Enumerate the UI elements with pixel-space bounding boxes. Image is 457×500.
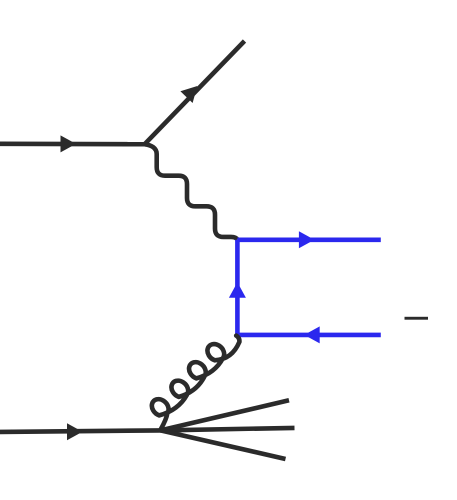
hadron remnant line A (upper) [161,400,290,430]
hadron remnant line B (middle) [161,428,295,431]
arrow on blue top quark line [299,231,315,248]
minus sign label (superscript) [405,317,429,320]
blue antiquark line (bottom, arrow pointing left) [237,333,380,338]
incoming fermion line (top left) [0,142,145,147]
blue quark propagator (vertical) [235,240,240,335]
incoming hadron line (bottom left) [0,430,161,432]
hadron remnant line C (lower) [161,430,286,459]
arrow on blue vertical quark line [229,282,246,298]
arrow on incoming fermion [61,135,77,152]
gluon curly line [152,336,240,430]
arrow on incoming hadron line [67,423,83,440]
arrow on outgoing fermion [180,86,197,103]
arrow on blue bottom antiquark line [304,326,320,343]
blue quark line (top, outgoing right) [237,238,380,243]
photon wavy line [145,144,237,239]
outgoing fermion line (to upper right) [145,41,245,144]
